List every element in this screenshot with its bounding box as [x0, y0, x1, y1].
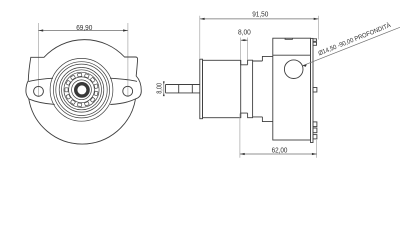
- leader line: [302, 27, 400, 66]
- boss circle r17.6: [64, 72, 99, 107]
- ear bottom inner edge right: [110, 99, 135, 105]
- dimension 62,00 extension right: [316, 140, 318, 158]
- body top notch: [285, 38, 292, 39]
- hole circle: [284, 60, 303, 79]
- boss cylinder side: [203, 60, 241, 117]
- dimension 69,90 arrow right: [123, 29, 128, 31]
- shaft: [166, 85, 200, 93]
- terminal tab 2: [313, 88, 317, 93]
- dimension 62,00 arrow left: [240, 153, 245, 155]
- dimension 91,50 extension left: [199, 16, 201, 59]
- terminal tab 3: [313, 122, 317, 127]
- boss circle r28.1: [53, 62, 109, 118]
- shaft step line 2: [191, 85, 193, 93]
- ear hole right: [123, 86, 133, 96]
- shaft ring thick: [76, 84, 88, 96]
- dimension 91,50: [200, 16, 319, 59]
- leader arrow: [302, 64, 306, 67]
- terminal tab 4: [313, 128, 317, 133]
- dimension 69,90 line: [38, 30, 128, 32]
- dimension 8,00 top: [241, 38, 248, 61]
- svg-text:62,00: 62,00: [272, 145, 288, 154]
- section A: [253, 61, 263, 117]
- dimension 8,00 shaft vertical: [163, 83, 165, 96]
- dimension 91,50 line: [200, 18, 319, 20]
- boss circle r22.3: [59, 68, 104, 113]
- ear top inner edge left: [29, 78, 53, 81]
- dimension 8,00 line: [241, 39, 248, 41]
- svg-text:8,00: 8,00: [238, 30, 251, 37]
- svg-text:91,50: 91,50: [252, 9, 268, 18]
- dimension 69,90 extension line left: [37, 23, 39, 97]
- shaft step line 1: [178, 85, 180, 93]
- dimension 91,50 arrow left: [200, 18, 205, 20]
- dimension 62,00 line: [240, 153, 317, 155]
- boss circle r31.4: [50, 58, 113, 121]
- boss circle r25.7: [56, 64, 107, 115]
- boss circle r20.0: [62, 70, 102, 110]
- svg-text:8,00: 8,00: [154, 83, 163, 94]
- dimension 69,90 arrow left: [39, 29, 44, 31]
- terminal tab 1b: [313, 42, 317, 45]
- dimension 91,50 arrow right: [314, 18, 319, 20]
- ear bottom inner edge left: [29, 99, 55, 105]
- dimension 91,50 extension right: [318, 16, 320, 40]
- svg-text:69,90: 69,90: [76, 23, 92, 32]
- ring section: [248, 60, 253, 117]
- dimension 62,00 arrow right: [312, 153, 317, 155]
- body seam line: [273, 54, 311, 56]
- terminal tab 5: [313, 135, 317, 139]
- svg-text:Ø14,50 -90,00 PROFONDITÀ: Ø14,50 -90,00 PROFONDITÀ: [317, 20, 393, 57]
- dimension 62,00 extension left: [239, 114, 241, 158]
- ear hole left: [34, 86, 44, 96]
- dimension 62,00: [240, 114, 317, 158]
- terminal tab 1a: [313, 39, 317, 42]
- end plate: [311, 38, 314, 142]
- flange silhouette: [26, 40, 141, 144]
- dimension 8,00 arrows: [241, 39, 248, 41]
- dimension 8,00 shaft arrows: [163, 81, 165, 96]
- groove: [241, 60, 248, 117]
- bearing rollers: [65, 73, 98, 106]
- ear top inner edge right: [110, 78, 137, 81]
- dimension 8,00 extension left: [240, 38, 242, 61]
- motor body: [273, 38, 311, 140]
- boss circle r9.9: [72, 80, 92, 100]
- flange plate side: [200, 59, 203, 118]
- boss circle r12.9: [69, 77, 95, 103]
- dimension 8,00 extension right: [247, 38, 249, 61]
- dimension 69,90 extension line right: [127, 23, 129, 97]
- section B: [262, 56, 272, 121]
